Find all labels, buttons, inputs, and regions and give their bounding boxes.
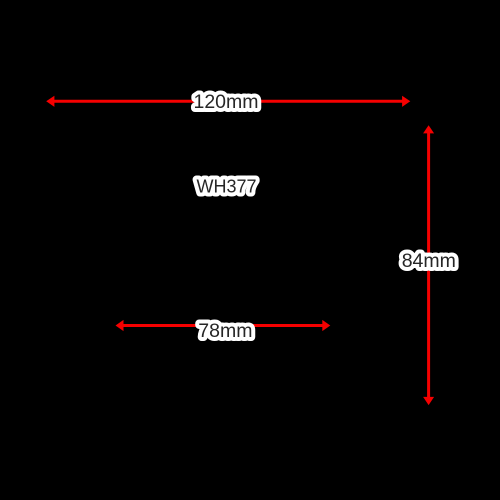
svg-text:WH377: WH377: [196, 177, 256, 197]
inner width arrow 78mm: [116, 320, 331, 331]
svg-text:84mm: 84mm: [402, 250, 456, 272]
height arrow 84mm: [423, 125, 434, 405]
svg-text:78mm: 78mm: [198, 320, 252, 342]
svg-text:120mm: 120mm: [193, 91, 258, 113]
width arrow 120mm: [46, 96, 410, 107]
